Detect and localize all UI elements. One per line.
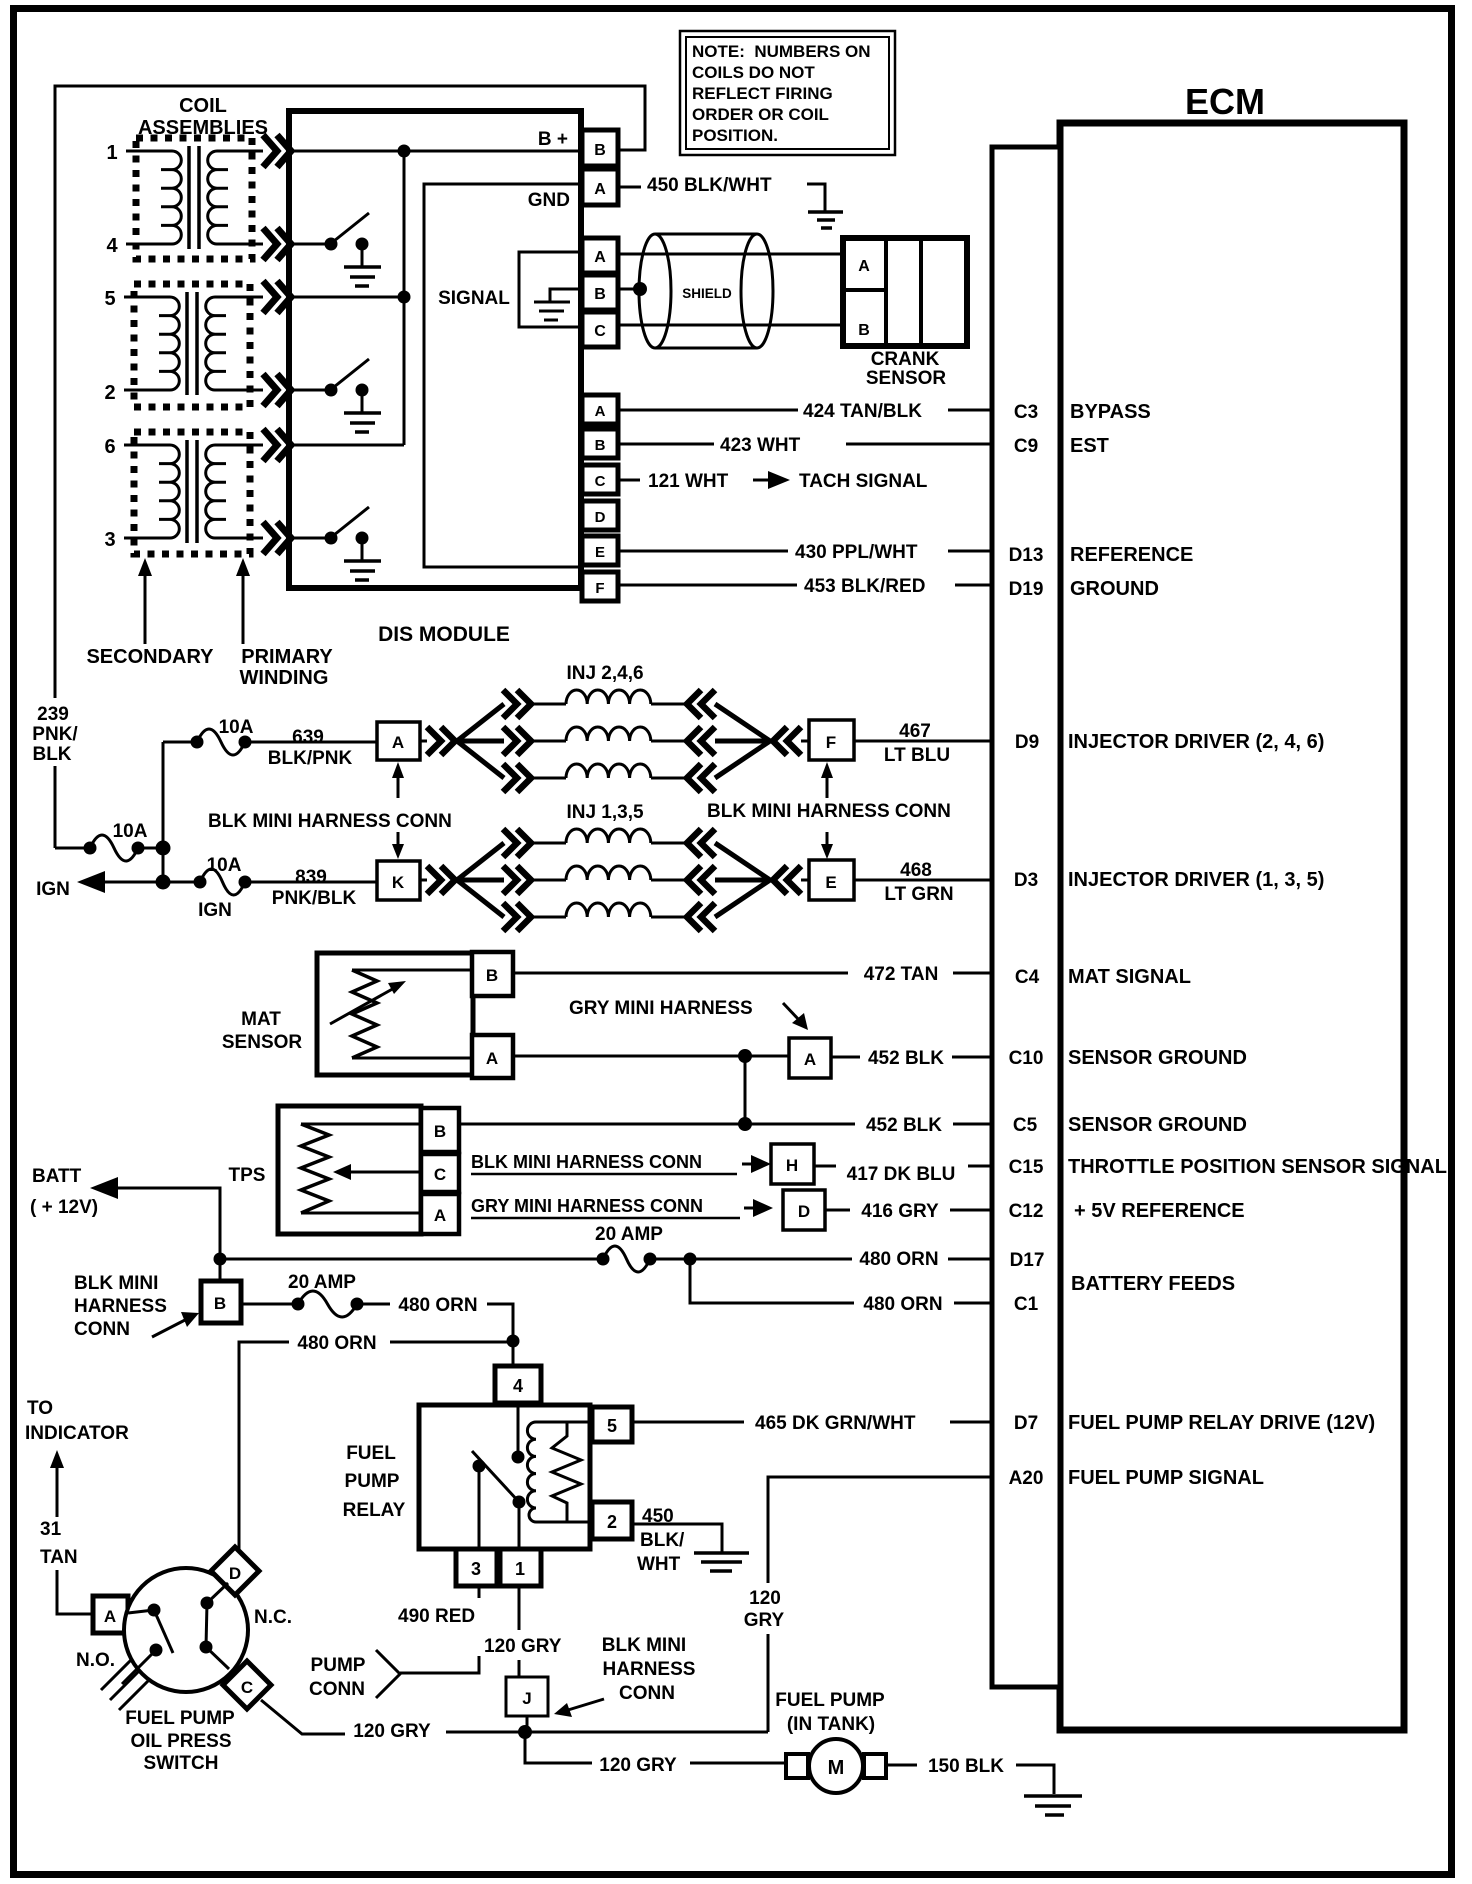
svg-text:FUEL PUMP RELAY DRIVE (12V): FUEL PUMP RELAY DRIVE (12V) xyxy=(1068,1412,1375,1434)
fuse 10A (639 row) xyxy=(197,729,245,755)
svg-text:C: C xyxy=(434,1165,446,1184)
TPS potentiometer zigzag xyxy=(301,1124,329,1213)
svg-text:MAT SIGNAL: MAT SIGNAL xyxy=(1068,966,1191,988)
coil assembly T3 (plugs 6,3) dotted box xyxy=(134,432,250,554)
label 239 PNK/BLK xyxy=(32,704,78,765)
svg-text:C5: C5 xyxy=(1013,1115,1038,1136)
switch Q3 (coil 6/3) xyxy=(291,507,381,580)
svg-text:424 TAN/BLK: 424 TAN/BLK xyxy=(803,401,922,422)
svg-text:+ 5V REFERENCE: + 5V REFERENCE xyxy=(1074,1200,1245,1222)
svg-text:423 WHT: 423 WHT xyxy=(720,435,801,456)
relay pin 1 lead xyxy=(518,1502,521,1549)
relay pin 5 xyxy=(592,1407,632,1442)
node junction 882 xyxy=(156,875,171,890)
svg-text:GRY: GRY xyxy=(744,1610,785,1631)
svg-text:( + 12V): ( + 12V) xyxy=(30,1197,98,1218)
connector A (blk mini harness) xyxy=(377,722,420,760)
T3 primary winding xyxy=(206,445,263,538)
wire 472 TAN to C4 xyxy=(513,972,992,975)
svg-text:HARNESS: HARNESS xyxy=(603,1659,696,1680)
svg-text:BLK MINI HARNESS CONN: BLK MINI HARNESS CONN xyxy=(707,801,951,822)
svg-text:BLK: BLK xyxy=(32,744,71,765)
svg-text:A: A xyxy=(594,249,606,266)
wire to conn A xyxy=(245,741,377,744)
svg-text:RELAY: RELAY xyxy=(343,1500,406,1521)
svg-text:480 ORN: 480 ORN xyxy=(859,1249,938,1270)
svg-text:SHIELD: SHIELD xyxy=(682,286,732,301)
svg-text:A: A xyxy=(392,733,404,752)
wire 120 GRY from pin 1 xyxy=(518,1586,521,1676)
relay internal bottom wire xyxy=(536,1521,590,1524)
node 480 orn T xyxy=(507,1335,520,1348)
fuel pump motor M1 xyxy=(786,1739,886,1793)
crank sensor label xyxy=(866,349,947,389)
svg-text:5: 5 xyxy=(104,288,115,310)
T1 core xyxy=(189,146,199,249)
switch pin C diamond xyxy=(223,1661,271,1709)
svg-text:480 ORN: 480 ORN xyxy=(297,1333,376,1354)
svg-text:A: A xyxy=(594,181,606,198)
svg-text:ECM: ECM xyxy=(1185,81,1265,122)
svg-text:480 ORN: 480 ORN xyxy=(398,1295,477,1316)
svg-text:PNK/: PNK/ xyxy=(32,724,78,745)
svg-text:120 GRY: 120 GRY xyxy=(599,1755,677,1776)
wire MAT A internal xyxy=(352,1057,472,1060)
TPS pin A xyxy=(421,1194,459,1234)
label PUMP CONN xyxy=(309,1655,366,1700)
svg-text:D7: D7 xyxy=(1014,1413,1038,1434)
wire MAT A to harness A xyxy=(513,1055,789,1058)
wire 450 BLK/WHT from pin A xyxy=(618,186,641,189)
svg-text:GND: GND xyxy=(528,190,570,211)
label BLK MINI HARNESS CONN (B box) xyxy=(74,1273,167,1340)
coil assembly T1 (plugs 1,4) dotted box xyxy=(136,138,252,259)
MAT pin A xyxy=(472,1035,513,1078)
svg-text:490 RED: 490 RED xyxy=(398,1606,475,1627)
contacts xyxy=(128,1610,154,1613)
MAT sensor box xyxy=(317,953,473,1075)
svg-text:C10: C10 xyxy=(1009,1048,1044,1069)
svg-text:10A: 10A xyxy=(207,855,242,876)
svg-text:20 AMP: 20 AMP xyxy=(288,1272,356,1293)
svg-text:PRIMARY: PRIMARY xyxy=(241,646,333,668)
svg-text:N.C.: N.C. xyxy=(254,1607,292,1628)
wire IGN arrow xyxy=(103,881,200,884)
svg-text:WHT: WHT xyxy=(637,1554,681,1575)
relay box xyxy=(419,1405,590,1549)
svg-text:BLK MINI: BLK MINI xyxy=(74,1273,158,1294)
wire 468 LT GRN to D3 xyxy=(854,879,992,882)
wire A to chevron xyxy=(420,740,427,743)
switch pin D diamond xyxy=(211,1547,259,1595)
svg-text:CONN: CONN xyxy=(309,1679,365,1700)
node IGN row fuse left xyxy=(194,876,207,889)
svg-text:BLK MINI HARNESS CONN: BLK MINI HARNESS CONN xyxy=(471,1152,702,1172)
BATT arrow xyxy=(214,1253,227,1266)
svg-text:A: A xyxy=(486,1049,498,1068)
injector row 917 xyxy=(503,903,531,931)
svg-text:INDICATOR: INDICATOR xyxy=(25,1423,129,1444)
T1 primary winding xyxy=(208,151,263,244)
wire 452 junction vertical xyxy=(744,1056,747,1124)
svg-text:BLK/PNK: BLK/PNK xyxy=(268,748,353,769)
svg-text:PUMP: PUMP xyxy=(311,1655,366,1676)
plug terminal labels xyxy=(104,142,118,551)
T1 secondary winding xyxy=(126,151,181,244)
svg-text:MAT: MAT xyxy=(241,1009,281,1030)
node B+ row5 xyxy=(398,291,411,304)
node 480 split xyxy=(684,1253,697,1266)
chevron into module row5 xyxy=(263,281,291,313)
wire to fuel pump xyxy=(525,1732,786,1763)
svg-text:GROUND: GROUND xyxy=(1070,578,1159,600)
svg-text:452 BLK: 452 BLK xyxy=(868,1048,944,1069)
wire K to chevron xyxy=(420,879,427,882)
switch Q1 (coil 1/4) xyxy=(291,213,381,286)
relay pin 4 xyxy=(495,1366,541,1403)
fuse 10A (839 row) xyxy=(200,869,245,895)
svg-text:SECONDARY: SECONDARY xyxy=(86,646,214,668)
DIS lower pins A-F xyxy=(582,395,618,601)
relay pin 3 lead xyxy=(478,1466,481,1549)
svg-text:4: 4 xyxy=(106,235,118,257)
T2 core xyxy=(187,292,197,395)
svg-text:C1: C1 xyxy=(1014,1294,1039,1315)
wire crank C xyxy=(618,324,843,327)
svg-text:D: D xyxy=(798,1202,810,1221)
wire 480 ORN to oil press switch xyxy=(390,1341,513,1344)
wire TPS B internal xyxy=(301,1123,421,1126)
fuse 10A (239 feed) xyxy=(90,835,138,861)
svg-text:B: B xyxy=(594,142,606,159)
wire J to junction xyxy=(526,1716,529,1732)
svg-text:B +: B + xyxy=(538,129,568,150)
svg-text:M: M xyxy=(828,1757,845,1779)
svg-text:REFLECT FIRING: REFLECT FIRING xyxy=(692,84,833,103)
svg-text:239: 239 xyxy=(37,704,69,725)
svg-text:B: B xyxy=(214,1294,226,1313)
svg-text:H: H xyxy=(786,1156,798,1175)
svg-text:(IN TANK): (IN TANK) xyxy=(787,1714,875,1735)
switch pin A xyxy=(93,1596,128,1633)
svg-text:E: E xyxy=(825,873,836,892)
svg-text:D9: D9 xyxy=(1015,732,1039,753)
wire 423 WHT (pin B to C9) xyxy=(618,443,992,446)
svg-text:INJ 2,4,6: INJ 2,4,6 xyxy=(566,663,643,684)
svg-text:450 BLK/WHT: 450 BLK/WHT xyxy=(647,175,772,196)
arrow down to E xyxy=(826,832,829,848)
node junction 848 xyxy=(156,841,171,856)
chevron pair before F xyxy=(773,727,801,755)
wire to conn K xyxy=(245,881,377,884)
svg-text:121 WHT: 121 WHT xyxy=(648,471,729,492)
svg-text:B: B xyxy=(595,437,606,454)
chevron into module row2 xyxy=(263,374,291,406)
svg-text:2: 2 xyxy=(104,382,115,404)
wire 452 BLK to C5 xyxy=(459,1123,992,1126)
svg-text:TACH SIGNAL: TACH SIGNAL xyxy=(799,471,928,492)
svg-text:416 GRY: 416 GRY xyxy=(861,1201,939,1222)
svg-text:SENSOR: SENSOR xyxy=(222,1032,303,1053)
DIS pin B (B+) xyxy=(582,130,618,166)
svg-text:6: 6 xyxy=(104,436,115,458)
arrow to harness A box xyxy=(783,1003,800,1021)
connector H (blk mini harness) xyxy=(771,1144,814,1184)
signal bracket box inside module xyxy=(519,252,582,327)
svg-text:BATT: BATT xyxy=(32,1166,82,1187)
svg-text:LT BLU: LT BLU xyxy=(884,745,950,766)
arrow up to A xyxy=(397,774,400,798)
arrow to J box xyxy=(568,1699,604,1710)
svg-text:5: 5 xyxy=(607,1416,617,1436)
svg-text:D17: D17 xyxy=(1010,1250,1045,1271)
T3 core xyxy=(187,440,197,543)
relay pin 3 xyxy=(456,1549,497,1586)
svg-text:REFERENCE: REFERENCE xyxy=(1070,544,1193,566)
svg-text:20 AMP: 20 AMP xyxy=(595,1224,663,1245)
injector bank 1,3,5 xyxy=(420,829,809,931)
svg-text:A: A xyxy=(804,1050,816,1069)
injector row 843 xyxy=(503,829,531,857)
ECM box U1 xyxy=(1060,81,1404,1730)
connector A (gry mini harness) xyxy=(789,1038,831,1078)
svg-text:J: J xyxy=(522,1689,531,1708)
relay pin 4 lead xyxy=(517,1405,520,1452)
svg-text:INJECTOR DRIVER (1, 3, 5): INJECTOR DRIVER (1, 3, 5) xyxy=(1068,869,1324,891)
label BATT (+12V) xyxy=(30,1166,98,1218)
svg-text:465 DK GRN/WHT: 465 DK GRN/WHT xyxy=(755,1413,916,1434)
svg-text:BLK MINI: BLK MINI xyxy=(602,1635,686,1656)
relay pin 1 xyxy=(500,1549,541,1586)
svg-text:839: 839 xyxy=(295,867,327,888)
fuse 20 AMP (D17 row) xyxy=(603,1246,650,1272)
vertical junction wire xyxy=(162,742,165,882)
svg-text:IGN: IGN xyxy=(198,900,232,921)
wire TPS A internal xyxy=(301,1212,421,1215)
label 31 TAN xyxy=(40,1519,78,1568)
switch Q2 (coil 5/2) xyxy=(291,359,381,432)
wire 416 GRY to C12 xyxy=(825,1209,992,1212)
svg-text:K: K xyxy=(392,873,405,892)
svg-text:453 BLK/RED: 453 BLK/RED xyxy=(804,576,925,597)
svg-text:C15: C15 xyxy=(1009,1157,1044,1178)
svg-text:C12: C12 xyxy=(1009,1201,1044,1222)
svg-text:10A: 10A xyxy=(113,821,148,842)
svg-text:LT GRN: LT GRN xyxy=(884,884,953,905)
TPS box xyxy=(278,1106,421,1234)
svg-text:ORDER OR COIL: ORDER OR COIL xyxy=(692,105,829,124)
wire 467 LT BLU to D9 xyxy=(854,740,992,743)
TPS wiper arrow xyxy=(345,1171,421,1174)
wire 430 PPL/WHT (pin E to D13) xyxy=(618,550,992,553)
N.C. blade xyxy=(206,1603,207,1647)
svg-text:SENSOR GROUND: SENSOR GROUND xyxy=(1068,1047,1247,1069)
svg-text:F: F xyxy=(826,733,836,752)
arrow to D xyxy=(744,1207,755,1210)
svg-text:31: 31 xyxy=(40,1519,62,1540)
connector B (blk mini harness) xyxy=(201,1259,241,1323)
label MAT SENSOR xyxy=(222,1009,303,1053)
svg-text:DIS MODULE: DIS MODULE xyxy=(378,623,510,646)
svg-text:D: D xyxy=(229,1564,241,1583)
svg-text:INJ 1,3,5: INJ 1,3,5 xyxy=(566,802,644,823)
DIS pin A (GND) xyxy=(582,169,618,205)
ECM pin labels xyxy=(1009,402,1045,1489)
svg-text:3: 3 xyxy=(104,529,115,551)
ECM connector column xyxy=(992,147,1060,1687)
chevron pair before E xyxy=(773,866,801,894)
MAT pin B xyxy=(472,952,513,996)
ECM signal labels xyxy=(1068,401,1447,1489)
svg-text:SENSOR GROUND: SENSOR GROUND xyxy=(1068,1114,1247,1136)
wire 450 BLK/WHT from pin 2 xyxy=(632,1524,722,1552)
svg-text:FUEL PUMP: FUEL PUMP xyxy=(125,1708,235,1729)
ground pin 2 xyxy=(694,1553,749,1571)
injector bank 2,4,6 xyxy=(420,690,809,792)
B+ bus vertical wire xyxy=(403,151,406,445)
ground inside signal bracket xyxy=(550,289,582,301)
wire fuse to junction xyxy=(138,847,163,850)
fuse 20 AMP (B box) xyxy=(298,1291,357,1317)
svg-text:POSITION.: POSITION. xyxy=(692,126,778,145)
wire 465 DK GRN/WHT to D7 xyxy=(632,1421,992,1424)
svg-text:TPS: TPS xyxy=(229,1165,266,1186)
relay resistor xyxy=(552,1422,581,1522)
note box xyxy=(680,31,895,155)
label TO INDICATOR xyxy=(25,1398,129,1444)
svg-text:FUEL PUMP SIGNAL: FUEL PUMP SIGNAL xyxy=(1068,1467,1264,1489)
svg-text:BLK MINI HARNESS CONN: BLK MINI HARNESS CONN xyxy=(208,811,452,832)
wire 120 GRY from oil press switch C xyxy=(261,1700,345,1734)
DIS module inner signal box xyxy=(424,184,580,567)
relay pin 2 xyxy=(592,1502,632,1539)
wire junction to fuse A-row xyxy=(163,741,196,744)
svg-text:450: 450 xyxy=(642,1506,674,1527)
svg-text:639: 639 xyxy=(292,727,324,748)
svg-text:WINDING: WINDING xyxy=(240,667,329,689)
secondary label arrow xyxy=(144,568,147,644)
svg-text:C: C xyxy=(595,473,606,490)
oil pressure switch S1 xyxy=(25,1398,271,1710)
coil assembly T2 (plugs 5,2) dotted box xyxy=(134,284,250,407)
svg-text:A: A xyxy=(595,403,606,420)
ground for 450 BLK/WHT xyxy=(807,184,825,211)
switch body circle xyxy=(124,1568,248,1692)
svg-text:C3: C3 xyxy=(1014,402,1038,423)
svg-text:2: 2 xyxy=(607,1512,617,1532)
svg-text:C4: C4 xyxy=(1015,967,1040,988)
label FUEL PUMP RELAY xyxy=(343,1443,406,1521)
svg-text:FUEL PUMP: FUEL PUMP xyxy=(775,1690,885,1711)
node 120 gry junction xyxy=(518,1725,532,1739)
svg-text:THROTTLE POSITION SENSOR SIGNA: THROTTLE POSITION SENSOR SIGNAL xyxy=(1068,1156,1447,1178)
wire crank B to shield xyxy=(618,288,636,291)
svg-text:E: E xyxy=(595,544,605,561)
svg-text:GRY MINI HARNESS: GRY MINI HARNESS xyxy=(569,998,753,1019)
wire 31 TAN riser xyxy=(57,1462,93,1614)
svg-text:A: A xyxy=(434,1206,446,1225)
wire 417 DK BLU to C15 xyxy=(814,1165,992,1168)
svg-text:150 BLK: 150 BLK xyxy=(928,1756,1004,1777)
svg-text:SWITCH: SWITCH xyxy=(144,1753,219,1774)
label BLK MINI HARNESS CONN (J box) xyxy=(602,1635,696,1704)
connector K (blk mini harness) xyxy=(377,861,420,900)
chevron into module row4 xyxy=(263,228,291,260)
svg-text:F: F xyxy=(595,580,604,597)
wire fuse to 480 ORN corner xyxy=(357,1303,390,1306)
pump conn chevron xyxy=(376,1650,400,1698)
connector F (blk mini harness) xyxy=(809,720,854,760)
svg-text:CRANK: CRANK xyxy=(871,349,940,370)
wire 120 GRY row xyxy=(446,1731,768,1734)
wire B box to fuse xyxy=(241,1303,298,1306)
svg-text:INJECTOR DRIVER (2, 4, 6): INJECTOR DRIVER (2, 4, 6) xyxy=(1068,731,1324,753)
crank sensor connector xyxy=(843,238,967,346)
svg-text:3: 3 xyxy=(471,1559,481,1579)
svg-text:417 DK BLU: 417 DK BLU xyxy=(847,1164,956,1185)
svg-text:D: D xyxy=(595,509,606,526)
arrow up to F xyxy=(826,774,829,798)
ground 150 BLK xyxy=(1024,1796,1082,1815)
svg-text:TAN: TAN xyxy=(40,1547,78,1568)
svg-text:480 ORN: 480 ORN xyxy=(863,1294,942,1315)
svg-text:COILS DO NOT: COILS DO NOT xyxy=(692,63,815,82)
TPS pin B xyxy=(421,1108,459,1152)
svg-text:CONN: CONN xyxy=(74,1319,130,1340)
wire MAT B internal xyxy=(352,969,472,972)
chevron into module row6 xyxy=(263,429,291,461)
svg-text:A20: A20 xyxy=(1009,1468,1044,1489)
svg-text:BYPASS: BYPASS xyxy=(1070,401,1151,423)
B+ bus wire row1 xyxy=(291,150,582,153)
wire 453 BLK/RED (pin F to D19) xyxy=(618,584,992,587)
wire battery feed row D17 xyxy=(220,1258,603,1261)
T2 secondary winding xyxy=(124,297,179,390)
fanout wires xyxy=(457,843,504,917)
primary label arrow xyxy=(242,568,245,644)
relay switch blade xyxy=(472,1451,519,1502)
chevron pair after A xyxy=(427,727,455,755)
svg-text:467: 467 xyxy=(899,721,931,742)
svg-text:CONN: CONN xyxy=(619,1683,675,1704)
svg-text:D19: D19 xyxy=(1009,579,1044,600)
arrow down to K xyxy=(397,832,400,848)
relay coil xyxy=(527,1422,536,1522)
MAT thermistor zigzag xyxy=(352,970,377,1058)
svg-text:A: A xyxy=(858,258,870,275)
svg-text:B: B xyxy=(594,286,606,303)
DIS crank pins A/B/C xyxy=(582,238,618,347)
MAT variable arrow xyxy=(330,987,396,1024)
svg-text:468: 468 xyxy=(900,860,932,881)
svg-text:COIL: COIL xyxy=(179,95,227,117)
svg-text:PNK/BLK: PNK/BLK xyxy=(272,888,357,909)
winding labels xyxy=(86,646,333,689)
wire 121 WHT tach (pin C) xyxy=(618,479,640,482)
svg-text:452 BLK: 452 BLK xyxy=(866,1115,942,1136)
injector row 778 xyxy=(503,764,531,792)
N.O. lead + hatches xyxy=(122,1650,156,1684)
svg-text:BLK/: BLK/ xyxy=(640,1530,685,1551)
svg-text:C: C xyxy=(594,323,606,340)
T3 secondary winding xyxy=(124,445,179,538)
chevron pair after K xyxy=(427,866,455,894)
wire 490 RED from pin 3 xyxy=(400,1586,479,1673)
shield cable cylinder xyxy=(639,234,773,348)
svg-text:472 TAN: 472 TAN xyxy=(864,964,939,985)
wire coil6 to bus xyxy=(291,444,404,447)
svg-text:A: A xyxy=(104,1607,116,1626)
